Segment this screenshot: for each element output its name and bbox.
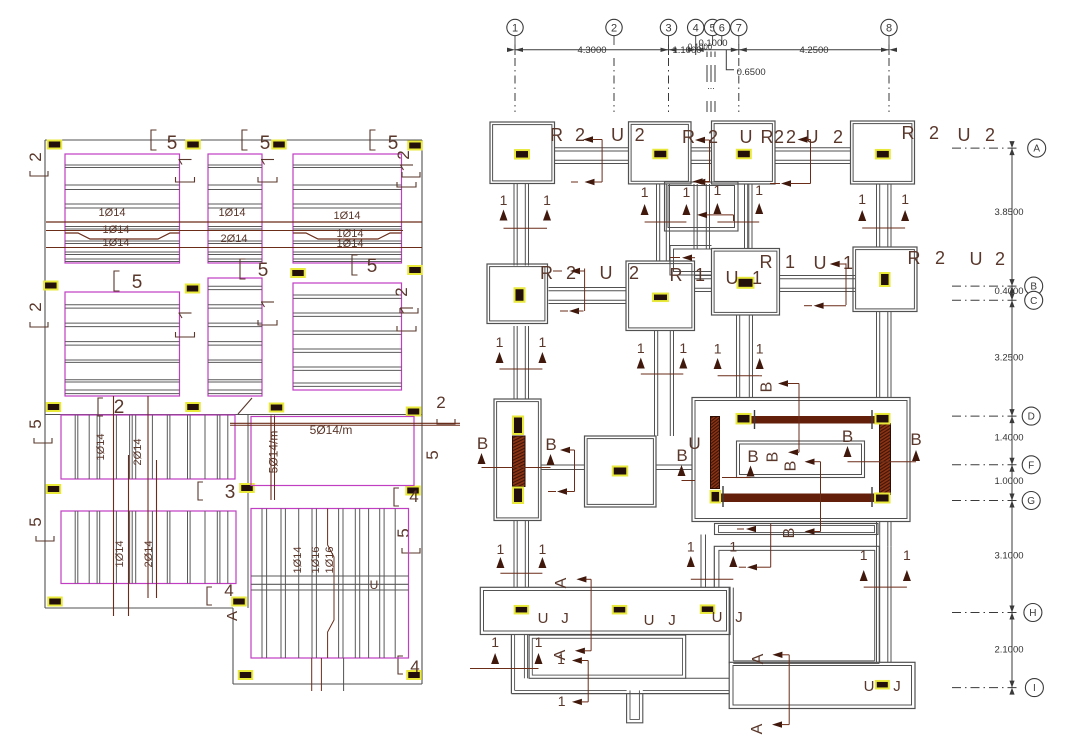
svg-text:1: 1 [858, 191, 866, 207]
svg-text:G: G [1027, 496, 1035, 507]
svg-text:1.0000: 1.0000 [994, 476, 1023, 487]
svg-text:5: 5 [26, 419, 45, 428]
svg-text:2Ø14: 2Ø14 [143, 541, 155, 568]
svg-text:1Ø14: 1Ø14 [114, 541, 126, 568]
svg-text:3: 3 [665, 23, 671, 35]
svg-text:1Ø14: 1Ø14 [103, 224, 130, 236]
svg-text:R: R [908, 248, 921, 268]
svg-text:1Ø16: 1Ø16 [310, 547, 322, 574]
svg-text:B: B [842, 427, 853, 446]
svg-text:B: B [676, 446, 687, 465]
svg-text:2: 2 [935, 248, 945, 268]
svg-text:B: B [477, 434, 488, 453]
svg-text:J: J [561, 610, 569, 627]
svg-text:5: 5 [423, 450, 442, 459]
svg-text:J: J [893, 678, 901, 695]
svg-text:U: U [864, 678, 875, 695]
svg-text:8: 8 [886, 23, 892, 35]
svg-text:2Ø14: 2Ø14 [221, 233, 248, 245]
svg-text:1Ø14: 1Ø14 [334, 210, 361, 222]
svg-text:4: 4 [410, 657, 419, 676]
svg-text:R: R [682, 127, 695, 147]
svg-text:1: 1 [903, 547, 911, 563]
svg-text:1Ø14: 1Ø14 [337, 238, 364, 250]
svg-text:2: 2 [985, 125, 995, 145]
svg-text:U: U [726, 268, 739, 288]
svg-text:1: 1 [843, 253, 853, 273]
svg-text:5Ø14/m: 5Ø14/m [310, 423, 353, 437]
svg-text:A: A [224, 611, 241, 621]
svg-text:1: 1 [687, 539, 695, 555]
svg-text:1: 1 [500, 192, 508, 208]
svg-text:4: 4 [409, 487, 418, 506]
svg-text:U: U [970, 249, 983, 269]
svg-text:J: J [735, 609, 743, 626]
svg-text:1Ø14: 1Ø14 [103, 237, 130, 249]
svg-text:0.1000: 0.1000 [688, 43, 713, 52]
svg-text:1.4000: 1.4000 [994, 433, 1023, 444]
svg-text:2: 2 [635, 125, 645, 145]
svg-text:5: 5 [260, 133, 271, 154]
svg-text:1: 1 [714, 341, 722, 357]
svg-text:1: 1 [512, 23, 518, 35]
svg-text:U: U [538, 610, 549, 627]
svg-text:5: 5 [394, 528, 413, 537]
svg-text:2Ø14: 2Ø14 [132, 439, 144, 466]
svg-text:J: J [668, 612, 676, 629]
svg-text:U: U [740, 127, 753, 147]
svg-text:1: 1 [785, 252, 795, 272]
svg-text:1Ø14: 1Ø14 [292, 547, 304, 574]
svg-text:I: I [1033, 683, 1036, 694]
svg-text:1: 1 [539, 334, 547, 350]
svg-text:1: 1 [491, 634, 499, 650]
svg-text:2: 2 [611, 23, 617, 35]
svg-text:A: A [749, 723, 766, 734]
svg-text:3: 3 [225, 482, 236, 503]
svg-text:H: H [1029, 608, 1036, 619]
svg-text:1Ø16: 1Ø16 [324, 547, 336, 574]
svg-text:1: 1 [729, 539, 737, 555]
svg-text:4: 4 [693, 23, 699, 35]
svg-text:U: U [814, 253, 827, 273]
svg-text:R: R [550, 125, 563, 145]
svg-text:1: 1 [641, 184, 649, 200]
svg-text:A: A [750, 653, 767, 664]
svg-text:D: D [1028, 412, 1035, 423]
svg-text:1: 1 [756, 341, 764, 357]
svg-text:1: 1 [714, 182, 722, 198]
svg-text:B: B [765, 452, 782, 463]
svg-text:R: R [902, 123, 915, 143]
svg-text:U: U [958, 125, 971, 145]
svg-text:1: 1 [901, 191, 909, 207]
svg-text:4.2500: 4.2500 [799, 45, 828, 56]
svg-text:C: C [1030, 296, 1037, 307]
svg-text:B: B [747, 447, 758, 466]
svg-text:B: B [781, 528, 798, 539]
svg-text:R: R [760, 252, 773, 272]
svg-text:2: 2 [26, 152, 45, 161]
svg-text:4.3000: 4.3000 [577, 45, 606, 56]
svg-text:U: U [370, 578, 379, 592]
svg-text:U: U [688, 434, 700, 453]
svg-text:4: 4 [224, 581, 233, 600]
svg-text:0.6500: 0.6500 [737, 67, 766, 78]
svg-text:2: 2 [566, 263, 576, 283]
svg-text:2: 2 [114, 397, 125, 418]
svg-text:2: 2 [392, 287, 411, 296]
svg-text:B: B [545, 435, 556, 454]
svg-text:1Ø14: 1Ø14 [219, 207, 246, 219]
svg-text:2: 2 [833, 127, 843, 147]
svg-text:1: 1 [539, 541, 547, 557]
svg-text:R: R [670, 265, 683, 285]
svg-text:2: 2 [774, 127, 784, 147]
svg-text:1: 1 [695, 265, 705, 285]
svg-text:U: U [644, 612, 655, 629]
svg-text:1: 1 [683, 184, 691, 200]
svg-text:1Ø14: 1Ø14 [95, 434, 107, 461]
svg-text:1: 1 [557, 651, 565, 667]
svg-text:2: 2 [995, 249, 1005, 269]
svg-text:1: 1 [860, 547, 868, 563]
svg-text:U: U [712, 609, 723, 626]
svg-text:5: 5 [26, 517, 45, 526]
svg-text:B: B [783, 461, 800, 472]
svg-text:1: 1 [755, 182, 763, 198]
svg-text:1Ø14: 1Ø14 [99, 207, 126, 219]
svg-text:2: 2 [629, 263, 639, 283]
svg-text:1: 1 [679, 340, 687, 356]
svg-text:2.1000: 2.1000 [994, 644, 1023, 655]
svg-text:2: 2 [394, 150, 413, 159]
svg-text:F: F [1028, 460, 1034, 471]
svg-text:2: 2 [786, 127, 796, 147]
svg-text:5: 5 [367, 256, 378, 277]
svg-text:A: A [1033, 144, 1040, 155]
svg-text:3.8500: 3.8500 [994, 207, 1023, 218]
svg-text:2: 2 [26, 302, 45, 311]
svg-text:3.2500: 3.2500 [994, 353, 1023, 364]
svg-text:1: 1 [543, 192, 551, 208]
svg-text:3.1000: 3.1000 [994, 551, 1023, 562]
svg-text:5Ø14/m: 5Ø14/m [267, 431, 281, 474]
svg-text:1: 1 [558, 693, 566, 709]
svg-text:A: A [553, 577, 570, 588]
svg-text:R: R [761, 127, 774, 147]
svg-text:1: 1 [496, 334, 504, 350]
svg-text:2: 2 [929, 123, 939, 143]
svg-text:1: 1 [535, 634, 543, 650]
svg-text:5: 5 [167, 133, 178, 154]
svg-text:7: 7 [736, 23, 742, 35]
svg-text:2: 2 [436, 393, 445, 412]
svg-text:B: B [758, 382, 775, 393]
svg-text:R: R [540, 263, 553, 283]
svg-text:1: 1 [497, 541, 505, 557]
svg-text:B: B [910, 430, 921, 449]
svg-text:2: 2 [575, 125, 585, 145]
svg-text:U: U [600, 263, 613, 283]
svg-text:1: 1 [637, 340, 645, 356]
svg-text:5: 5 [132, 272, 143, 293]
svg-text:6: 6 [719, 23, 725, 35]
svg-text:...: ... [707, 81, 715, 91]
svg-text:5: 5 [258, 260, 269, 281]
svg-text:U: U [611, 125, 624, 145]
svg-text:0.4000: 0.4000 [994, 286, 1023, 297]
